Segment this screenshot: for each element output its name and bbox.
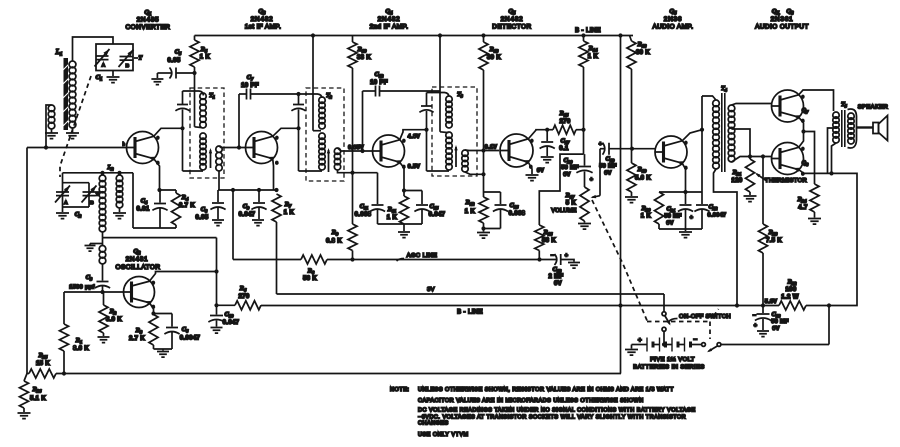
wire T3 secondary bottom: [465, 172, 484, 174]
node B-LINE top label: [575, 28, 601, 34]
node label T trimmer: [134, 56, 143, 62]
node junction R9-AGC: [350, 257, 354, 261]
inductor T3 primary lower: [446, 132, 452, 170]
node junction Q6emitter node: [683, 190, 687, 194]
node junction R23-Bline: [761, 303, 765, 307]
node label NOTE block: [390, 387, 696, 438]
svg-text:c: c: [531, 138, 533, 143]
wire R7 to 3V line: [276, 222, 278, 294]
node junction C7riser-base: [237, 145, 241, 149]
node junction Bdrop-Bline: [618, 303, 622, 307]
wire R13 column: [483, 70, 485, 197]
svg-text:T3: T3: [457, 92, 464, 99]
svg-text:1st IF AMP.: 1st IF AMP.: [245, 24, 282, 31]
ground R17: [578, 221, 591, 229]
inductor T2 primary lower: [319, 133, 325, 170]
node junction secbot-R10col: [350, 171, 354, 175]
resistor R3: [129, 315, 158, 350]
node voltage label 0.5V: [408, 164, 421, 170]
resistor R21 thermistor: [731, 159, 754, 195]
svg-text:5.3V: 5.3V: [765, 299, 778, 305]
svg-text:270: 270: [559, 119, 570, 125]
svg-text:50 MF: 50 MF: [771, 319, 789, 325]
svg-text:−: −: [753, 313, 757, 319]
ground L1 primary: [66, 133, 79, 139]
ground C9: [252, 220, 264, 226]
svg-text:6V: 6V: [666, 221, 673, 227]
resistor R22: [779, 279, 829, 311]
svg-text:−: −: [693, 337, 697, 344]
ground C2: [56, 213, 69, 219]
svg-text:270: 270: [238, 294, 249, 300]
node voltage label 4.8V: [408, 134, 421, 140]
svg-text:−: −: [551, 253, 555, 259]
resistor R16: [535, 225, 557, 260]
wire C7 to T2 coil top: [299, 94, 322, 98]
wire Q8e line to battery: [829, 173, 857, 344]
wire R14 column: [583, 67, 585, 154]
wire thermistor arrow: [755, 173, 766, 181]
value label C1: [96, 74, 103, 83]
wire Q6 emitter drop: [682, 163, 685, 204]
ground C18: [757, 331, 769, 337]
node label 3V: [427, 287, 435, 293]
node label B-LINE bottom: [457, 310, 483, 316]
wire stage1 emitter bus: [218, 189, 277, 191]
transistor Q8: [772, 143, 810, 177]
node junction C7wire-T2tank: [296, 92, 300, 96]
svg-text:c: c: [152, 280, 154, 285]
resistor R1: [60, 292, 90, 374]
wire T1 tuning arrow: [209, 148, 212, 168]
node junction R23riser-Q8base: [761, 154, 765, 158]
svg-text:7.5 K: 7.5 K: [766, 238, 782, 244]
node junction C12riser-base: [360, 149, 364, 153]
transistor Q4: [373, 135, 406, 169]
wire R17 wiper arrow: [591, 195, 601, 198]
wire tickler ground lead: [90, 244, 103, 246]
node junction R12-C16 bottom: [481, 226, 485, 230]
svg-text:DC VOLTAGE READINGS TAKEN UNDE: DC VOLTAGE READINGS TAKEN UNDER NO SIGNA…: [418, 408, 696, 414]
inductor T1 primary lower: [200, 133, 206, 170]
capacitor C1 section A: [95, 49, 110, 69]
svg-text:0.068: 0.068: [355, 212, 372, 218]
svg-text:T5: T5: [841, 102, 848, 109]
svg-text:0.047: 0.047: [429, 212, 446, 218]
wire L1 secondary bottom: [51, 129, 53, 133]
svg-text:+: +: [638, 337, 642, 344]
inductor T1 secondary: [216, 146, 222, 171]
svg-text:50 MF: 50 MF: [664, 214, 682, 220]
wire Q6 collector: [682, 130, 702, 141]
wire bottom rail: [27, 373, 621, 375]
inductor T2 secondary: [334, 148, 340, 170]
svg-text:2N482: 2N482: [251, 16, 274, 23]
switch S1 upper contact: [662, 312, 666, 316]
capacitor T2 tank cap: [291, 94, 305, 171]
resistor R2: [99, 292, 122, 336]
svg-text:2.7 K: 2.7 K: [129, 336, 145, 342]
wire T5 primary bottom: [832, 143, 837, 173]
wire AGC line: [233, 259, 557, 261]
resistor R4: [172, 190, 196, 228]
ground C10: [211, 328, 223, 334]
wire C2 ground stem: [62, 208, 64, 213]
wire Q6col to T4 primary top: [702, 96, 716, 130]
node junction Q5col-C17: [545, 128, 549, 132]
value label C2: [75, 211, 82, 219]
svg-text:50 MF: 50 MF: [561, 165, 579, 171]
transformer T5 label: [841, 102, 848, 109]
wire Q7 collector to T5: [799, 90, 834, 111]
svg-text:4.7: 4.7: [798, 205, 808, 211]
svg-text:6V: 6V: [772, 326, 779, 332]
wire stage2 emitter RC bottom: [378, 223, 423, 225]
capacitor C16: [484, 192, 526, 229]
svg-text:+: +: [565, 253, 569, 259]
svg-text:15 K: 15 K: [36, 361, 50, 367]
svg-text:AGC LINE: AGC LINE: [407, 253, 438, 259]
node voltage label 0.65V: [348, 145, 364, 151]
svg-text:B: B: [126, 63, 130, 69]
transformer T1 box: [190, 88, 224, 178]
wire R5 riser to T1 tap: [195, 73, 203, 128]
wire battery left lead: [632, 344, 647, 346]
node voltage label 0.1V: [485, 145, 498, 151]
wire C1 box to ground: [112, 71, 114, 77]
resistor R11: [387, 191, 409, 225]
resistor R8: [301, 255, 327, 282]
transistor Q6: [655, 136, 688, 170]
node voltage label 0V: [537, 168, 544, 174]
wire Q3 collector to T2: [273, 128, 299, 136]
wire R16 elbow path: [539, 154, 583, 225]
resistor R14: [579, 36, 599, 68]
svg-text:c: c: [157, 135, 159, 140]
node junction R16-AGC: [537, 257, 541, 261]
node junction Q6 base node: [630, 147, 634, 151]
transistor Q3: [246, 132, 279, 166]
svg-text:T4: T4: [721, 86, 728, 93]
wire osc tap line: [103, 232, 217, 305]
resistor R17 volume: [551, 187, 589, 221]
ground L2 right: [113, 213, 126, 219]
node junction Q7e-Q8c: [801, 129, 805, 133]
resistor R7: [272, 194, 295, 222]
svg-text:B - LINE: B - LINE: [457, 310, 483, 316]
wire top B-line rail: [195, 35, 634, 37]
resistor R10: [313, 36, 371, 69]
svg-text:c: c: [276, 135, 278, 140]
svg-text:c: c: [802, 146, 804, 151]
transformer T4 label: [721, 86, 728, 93]
node junction Q4col-T3tank: [424, 128, 428, 132]
svg-text:2N481: 2N481: [126, 256, 149, 263]
svg-text:0.05: 0.05: [167, 58, 180, 64]
ground C13: [568, 263, 580, 269]
resistor R5: [190, 36, 211, 74]
wire T3 tank bottom: [427, 170, 450, 172]
ground R12: [477, 229, 490, 239]
capacitor C20: [561, 154, 593, 187]
node junction R5-C5: [192, 71, 196, 75]
svg-text:2 MF: 2 MF: [548, 274, 563, 280]
svg-text:1500 μμf: 1500 μμf: [69, 285, 95, 291]
switch S2 contact right: [717, 343, 721, 347]
svg-text:AUDIO OUTPUT: AUDIO OUTPUT: [755, 24, 809, 31]
node junction R1-rail: [62, 371, 66, 375]
node junction rail-Bdrop: [618, 33, 622, 37]
inductor L2 left winding: [99, 164, 114, 232]
wire Q6 base wire: [632, 148, 655, 150]
svg-text:50 MF: 50 MF: [599, 164, 617, 170]
wire battery minus lead: [691, 344, 702, 346]
node label battery caption: [633, 356, 705, 371]
wire Q6 emitter RC bottom: [659, 228, 702, 230]
wire Q2 base line: [64, 291, 124, 293]
capacitor C2 section B trimmer: [63, 183, 100, 207]
node junction R15-R14col: [581, 128, 585, 132]
ground R19: [625, 197, 638, 203]
ground battery: [625, 345, 638, 356]
wire T2 secondary top to Q4 base: [338, 148, 373, 151]
node junction emitter-C4: [157, 188, 161, 192]
svg-text:−6VDC. VOLTAGES AT TRANSISTO: −6VDC. VOLTAGES AT TRANSISTOR SOCKETS WI…: [418, 415, 686, 421]
resistor R9: [326, 224, 357, 260]
wire T3 rail feed riser to tap: [440, 36, 449, 133]
node junction L2right-top: [117, 171, 121, 175]
svg-text:0.047: 0.047: [223, 320, 240, 326]
ground R2: [98, 337, 110, 343]
wire B-line: [261, 305, 779, 307]
svg-text:5 K: 5 K: [566, 201, 577, 207]
node junction emitter-R3-C6: [151, 311, 155, 315]
node junction switch-battery: [662, 342, 666, 346]
resistor R24: [797, 184, 819, 218]
speaker: [848, 105, 889, 149]
wire L1 primary bottom: [72, 128, 74, 133]
svg-text:AUDIO AMP.: AUDIO AMP.: [653, 24, 694, 31]
resistor R18: [627, 36, 650, 149]
ground R21: [744, 196, 757, 202]
svg-text:Q7: Q7: [802, 108, 809, 115]
capacitor C8: [195, 190, 225, 221]
wire T1 secondary bottom: [218, 171, 220, 190]
resistor R20: [641, 192, 686, 229]
capacitor C17: [540, 130, 570, 156]
node label THERMISTOR: [765, 178, 807, 184]
node junction rail-R13: [481, 33, 485, 37]
svg-text:BATTERIES IN SERIES: BATTERIES IN SERIES: [633, 365, 705, 371]
inductor L1 secondary winding: [48, 105, 55, 129]
node junction L1sec-baseline: [44, 145, 48, 149]
switch S2 contact left: [702, 343, 706, 347]
svg-text:1 K: 1 K: [387, 215, 398, 221]
svg-text:3V: 3V: [427, 287, 435, 293]
capacitor C13: [548, 253, 574, 287]
inductor T1 primary upper: [200, 93, 206, 128]
wire T4 primary bottom to B-line: [714, 169, 738, 306]
wire T4 center tap: [732, 129, 751, 159]
svg-text:0.047: 0.047: [239, 212, 256, 218]
svg-text:0.05: 0.05: [195, 215, 208, 221]
svg-text:2N485: 2N485: [137, 17, 160, 24]
svg-text:56 K: 56 K: [542, 238, 556, 244]
svg-text:2N482: 2N482: [501, 16, 524, 23]
wire L2 right bottom: [119, 208, 121, 212]
svg-text:2.7 K: 2.7 K: [179, 203, 195, 209]
node junction T5prim-Q8e: [829, 171, 833, 175]
node junction rail-T3 feed: [438, 33, 442, 37]
ground R3 C6: [157, 349, 169, 357]
ground Q6 emitter RC: [679, 229, 692, 238]
wire T1 tank top: [183, 91, 204, 96]
ground C5: [151, 79, 163, 85]
svg-text:B: B: [90, 200, 94, 206]
wire Q8 collector: [799, 132, 804, 148]
node Q6 stage label: [653, 8, 694, 31]
ground osc tickler: [85, 246, 96, 252]
wire 3V line: [277, 293, 665, 295]
svg-text:T1: T1: [209, 93, 215, 100]
svg-text:T2: T2: [326, 93, 333, 100]
transistor Q7: [772, 90, 810, 123]
node label ON-OFF SWITCH: [669, 314, 731, 322]
ground C1: [107, 77, 120, 83]
svg-text:2N361: 2N361: [771, 16, 794, 23]
wire Q2 collector: [150, 272, 217, 281]
transistor Q1: [123, 132, 160, 166]
node junction R13col-base: [481, 148, 485, 152]
capacitor C21: [664, 205, 693, 229]
svg-text:0.01: 0.01: [136, 207, 149, 213]
capacitor C19: [599, 142, 632, 196]
ground R26: [18, 413, 31, 419]
svg-text:CONVERTER: CONVERTER: [126, 24, 171, 31]
resistor R13: [479, 36, 501, 71]
svg-text:3.9 K: 3.9 K: [106, 317, 122, 323]
inductor L1 primary winding: [55, 48, 76, 128]
node junction Q3col-T2tank: [296, 126, 300, 130]
resistor R19: [627, 149, 651, 196]
svg-text:c: c: [685, 140, 687, 145]
wire T1 tank bottom: [183, 170, 204, 172]
svg-text:+: +: [690, 215, 694, 221]
capacitor C4: [136, 190, 167, 228]
svg-text:T: T: [138, 56, 142, 62]
inductor osc tickler winding: [99, 246, 106, 265]
svg-text:120: 120: [731, 178, 742, 184]
node junction rail-R14: [581, 33, 585, 37]
svg-text:5.6 K: 5.6 K: [635, 176, 651, 182]
svg-text:2nd IF AMP.: 2nd IF AMP.: [370, 24, 409, 31]
svg-text:6V: 6V: [554, 281, 562, 287]
svg-text:+: +: [754, 323, 758, 329]
ground Q5 emitter: [526, 175, 539, 181]
node junction rail-T2 feed: [311, 33, 315, 37]
node Q7 Q8 stage label: [755, 8, 809, 31]
wire Q5 collector: [528, 130, 547, 139]
wire Q1 base line: [27, 147, 127, 149]
svg-text:0.1: 0.1: [559, 146, 569, 152]
node label AGC LINE: [397, 253, 438, 261]
transistor Q5: [500, 134, 533, 169]
svg-text:56 K: 56 K: [303, 276, 317, 282]
wire R10 column: [352, 68, 354, 224]
capacitor T3 tank cap: [419, 93, 433, 172]
svg-text:1 K: 1 K: [465, 209, 476, 215]
svg-text:+: +: [590, 177, 594, 183]
capacitor C7: [239, 74, 299, 148]
capacitor C9: [239, 190, 267, 219]
svg-text:0V: 0V: [537, 168, 544, 174]
wire C5 ground stem: [156, 73, 158, 78]
svg-text:0.0047: 0.0047: [708, 213, 727, 219]
svg-text:SPEAKER: SPEAKER: [858, 105, 889, 111]
wire B-line vertical drop: [620, 36, 622, 374]
svg-text:Q8: Q8: [802, 161, 809, 168]
capacitor C15: [404, 191, 446, 225]
svg-text:THERMISTOR: THERMISTOR: [765, 178, 807, 184]
inductor T5 primary: [833, 112, 839, 143]
wire Q1 emitter drop: [154, 159, 160, 190]
svg-text:c: c: [403, 138, 405, 143]
capacitor C18: [753, 306, 789, 333]
node junction Q1col-T1tank: [180, 126, 184, 130]
node junction osc-C10-R6: [214, 303, 218, 307]
wire battery to right rail: [721, 344, 829, 346]
node junction tap-Q8base crossing: [748, 154, 752, 158]
wire T4 sec top to Q7 base: [732, 104, 772, 106]
switch S1 lower contact: [662, 327, 666, 331]
wire Q7 emitter: [799, 117, 804, 131]
node Q5 stage label: [492, 8, 531, 31]
node junction secbot-R12col: [481, 172, 485, 176]
svg-text:4.8V: 4.8V: [408, 134, 421, 140]
capacitor C3: [69, 264, 110, 292]
node junction R22-right: [827, 303, 831, 307]
svg-text:10 PF: 10 PF: [370, 80, 388, 86]
svg-text:0.068: 0.068: [509, 211, 526, 217]
wire Q8 emitter: [799, 170, 834, 174]
svg-text:8.6 K: 8.6 K: [73, 346, 89, 352]
wire T1 secondary top to Q3 base: [219, 146, 245, 148]
node junction bus-R7: [274, 188, 278, 192]
resistor R23: [759, 157, 783, 306]
node junction Q6col-C22col: [700, 128, 704, 132]
svg-text:b: b: [123, 142, 126, 147]
capacitor C5: [157, 49, 194, 79]
capacitor T1 tank cap: [175, 91, 189, 171]
svg-text:0.0047: 0.0047: [180, 336, 201, 342]
svg-text:DETECTOR: DETECTOR: [492, 24, 531, 31]
wire Q4 emitter drop: [400, 162, 404, 190]
svg-text:UNLESS OTHERWISE SHOWN, RESIST: UNLESS OTHERWISE SHOWN, RESISTOR VALUES …: [418, 387, 674, 393]
node junction bus-AGCriser: [231, 188, 235, 192]
inductor T4 secondary: [728, 105, 735, 162]
node junction C3-base: [100, 290, 104, 294]
wire T3 tuning arrow: [454, 145, 457, 167]
node Q1 stage label: [126, 9, 171, 31]
wire Q4 collector to T3: [400, 130, 427, 140]
node voltage label 5.3V: [765, 299, 778, 305]
svg-text:0.1V: 0.1V: [485, 145, 498, 151]
ground L1 secondary: [45, 133, 58, 139]
resistor R25: [29, 352, 56, 378]
inductor T3 primary upper: [446, 96, 452, 128]
node Q4 stage label: [370, 8, 409, 31]
inductor T4 primary: [713, 100, 720, 169]
